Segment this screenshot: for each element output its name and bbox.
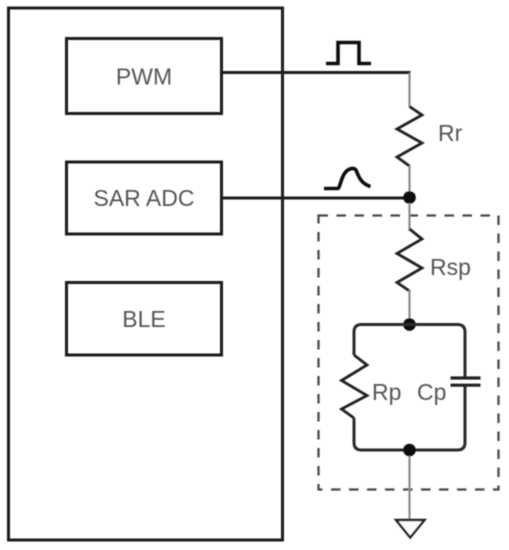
SAR ADC block [67,162,222,234]
svg-text:Rp: Rp [372,379,401,405]
resistor Rr [397,107,422,167]
SAR pulse waveform symbol [324,168,371,188]
node: top junction of parallel RC [403,318,416,331]
PWM pulse waveform symbol [326,43,371,64]
svg-text:Rsp: Rsp [430,254,471,280]
BLE block [67,283,222,356]
svg-text:SAR ADC: SAR ADC [94,185,195,211]
MCU outer box [9,8,283,540]
wire bottom node to ground [408,456,410,520]
resistor Rp [342,355,368,418]
wire Rr to node (thin lead) [408,166,410,192]
node: junction dot at Rr / SAR ADC [403,191,416,204]
node: bottom junction of parallel RC [403,444,416,457]
resistor Rsp [397,229,422,291]
svg-text:Rr: Rr [438,120,463,146]
parallel RC loop top wire [354,325,465,377]
svg-text:Cp: Cp [417,379,446,405]
wire corner down to Rr (thin lead) [408,73,410,107]
svg-text:BLE: BLE [122,306,165,332]
ground [396,520,425,538]
wire Rsp to top node of parallel RC (thin lead) [408,290,410,323]
capacitor Cp [451,378,481,385]
wire node to Rsp (thin lead) [408,203,410,231]
wire PWM to Rr (horizontal) [222,71,411,74]
parallel RC loop bottom wire [354,387,465,451]
wire SAR ADC to node (horizontal) [222,197,406,200]
dashed sensor boundary box [319,216,499,490]
PWM block [67,39,222,114]
svg-text:PWM: PWM [116,64,172,90]
